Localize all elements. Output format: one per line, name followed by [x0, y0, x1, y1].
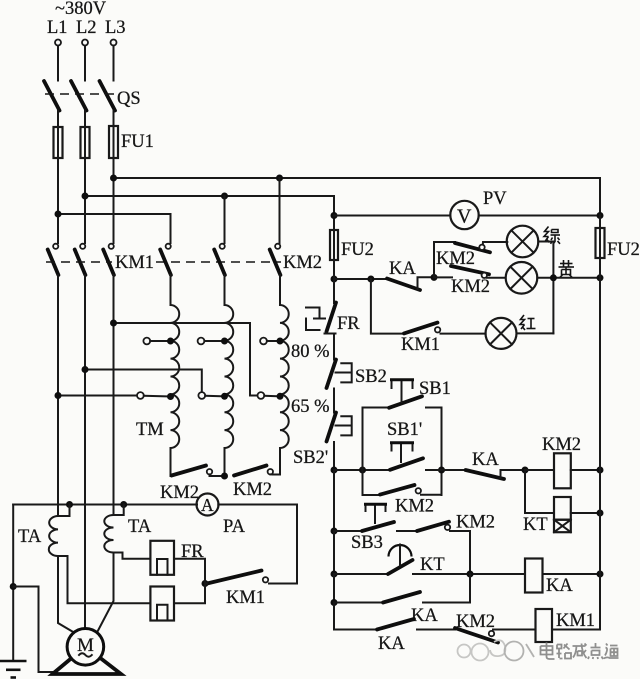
wire L2 drop: [84, 46, 86, 81]
left rail row2 to row3: [333, 531, 335, 574]
wire L3 drop: [113, 46, 115, 81]
voltmeter PV row wire: [334, 215, 450, 217]
thermal relay FR heater2: [150, 587, 174, 621]
svg-text:M: M: [77, 635, 94, 656]
relay KA contact row1: [442, 469, 466, 471]
left rail SB2 to SB2p: [333, 389, 335, 413]
svg-text:KM2: KM2: [283, 253, 322, 273]
node star junction: [221, 473, 228, 480]
wire KT branch: [525, 470, 554, 513]
svg-text:KT: KT: [523, 515, 548, 535]
svg-text:SB2: SB2: [355, 367, 387, 387]
node row3 mid: [467, 571, 474, 578]
wire green lamp to vertical: [538, 242, 553, 334]
ammeter PA: [197, 494, 219, 516]
contactor KM1 main pole2: [80, 244, 85, 249]
node left rail row3: [331, 571, 338, 578]
row2 wire: [334, 530, 362, 532]
wire QS to FU1 pole1: [57, 111, 59, 127]
wire bus2 L2 to left rail: [85, 196, 334, 216]
transformer TM winding1: [171, 305, 180, 448]
switch QS pole 2: [71, 81, 87, 111]
button SB3 start: [362, 522, 394, 531]
svg-text:TM: TM: [136, 420, 164, 440]
node right rail row3: [597, 571, 604, 578]
svg-text:SB1': SB1': [387, 420, 422, 440]
node red branch tap: [367, 276, 374, 283]
node FR junction: [202, 580, 209, 587]
contactor KM2 main pole1: [166, 244, 171, 249]
transformer TM winding3: [280, 305, 289, 448]
wire yellow lamp to rail: [537, 277, 600, 279]
contactor KM2 aux green: [455, 243, 490, 252]
node bus3-L1: [55, 211, 62, 218]
SB1 branch top edge: [363, 407, 390, 409]
contactor KM2 selfhold contact: [363, 494, 381, 496]
row1 main wire left: [334, 469, 390, 471]
SB1 box right vertical: [441, 408, 443, 496]
svg-text:~380V: ~380V: [55, 0, 107, 19]
wire L3 TA2 to motor: [97, 553, 114, 633]
node box left: [359, 467, 366, 474]
svg-text:65 %: 65 %: [291, 397, 330, 417]
node green yellow branch: [431, 274, 438, 281]
svg-text:KM2: KM2: [233, 480, 272, 500]
wire L1 KM1 down to motor branch: [57, 275, 59, 516]
svg-text:FU1: FU1: [121, 132, 154, 152]
node left rail row4: [331, 599, 338, 606]
node right rail PV row: [597, 212, 604, 219]
watermark text 电路成点通: [541, 643, 619, 660]
timer KT delayed contact: [388, 560, 413, 574]
contactor KM1 aux contact: [263, 577, 268, 582]
KM1 KM2 linkage dashed: [46, 261, 112, 263]
svg-text:KM1: KM1: [226, 588, 265, 608]
svg-text:A: A: [201, 495, 214, 515]
node TA2 secondary top: [120, 501, 127, 508]
ground: [0, 660, 27, 663]
left rail SB2p to row1: [333, 442, 335, 470]
terminal L3: [111, 40, 117, 46]
svg-text:KM2: KM2: [451, 277, 490, 297]
green label 绿: [544, 227, 560, 244]
node bus1 branch to KM2 pole3: [276, 175, 283, 182]
contactor KM1 coil: [536, 609, 553, 642]
node left rail row1: [331, 467, 338, 474]
fuse FU1 pole3: [109, 126, 118, 158]
wire L1 TA1 to motor: [58, 556, 74, 633]
tap 65% circle winding3: [258, 392, 265, 399]
fuse FU1 pole2: [81, 127, 90, 158]
wire L2 FU1 to KM1: [84, 158, 86, 243]
wire L1 FU1 to KM1: [57, 158, 59, 243]
node L3 tap: [110, 320, 117, 327]
button SB2 stop: [327, 360, 337, 389]
timer KT coil: [554, 497, 571, 520]
button SB2prime stop: [327, 413, 337, 442]
svg-text:KM2: KM2: [395, 497, 434, 517]
contactor KM2 star contact2: [234, 466, 267, 476]
wire ground to motor frame: [13, 587, 52, 673]
button SB1prime start: [390, 458, 423, 470]
ground wire left: [12, 505, 14, 662]
wire L2 tap to winding2 65%: [85, 370, 202, 393]
wire L3 KM1 down to TA2: [113, 275, 115, 515]
lamp red: [486, 318, 517, 349]
node left rail row2: [331, 528, 338, 535]
svg-text:KA: KA: [472, 450, 499, 470]
svg-text:FU2: FU2: [607, 240, 640, 260]
current transformer TA1: [58, 505, 70, 517]
svg-text:KA: KA: [378, 634, 405, 654]
tap 80% circle winding3: [260, 338, 267, 345]
wire L3 FU1 to KM1: [113, 158, 115, 243]
wire KM2 pole2 to TM winding2: [224, 275, 226, 305]
lamp row wire: [334, 278, 387, 280]
svg-text:L3: L3: [105, 18, 126, 38]
wire L1 drop: [57, 46, 59, 81]
wire FR1 to junction: [174, 559, 205, 584]
motor M: [67, 629, 104, 666]
terminal L1: [55, 40, 61, 46]
yellow label 黄: [559, 260, 575, 278]
wire ammeter to KM1 aux: [218, 505, 297, 584]
contactor KM2 main pole2: [220, 244, 225, 249]
svg-text:QS: QS: [117, 89, 141, 109]
svg-text:KA: KA: [411, 606, 438, 626]
lamp yellow: [506, 262, 538, 294]
svg-text:FU2: FU2: [341, 240, 374, 260]
wire FR2 to junction: [174, 584, 205, 604]
svg-text:SB2': SB2': [293, 448, 328, 468]
wire winding3 bottom: [273, 448, 280, 475]
wire green branch up: [434, 242, 455, 277]
node bus1-L3: [110, 175, 117, 182]
wire winding1 bottom: [170, 448, 172, 476]
svg-text:PV: PV: [483, 189, 507, 209]
node bus2 branch to KM2 pole2: [221, 193, 228, 200]
svg-text:80 %: 80 %: [291, 342, 330, 362]
wire QS to FU1 pole3: [113, 111, 115, 127]
wire QS to FU1 pole2: [84, 111, 86, 127]
svg-text:KA: KA: [389, 259, 416, 279]
terminal L2: [82, 40, 88, 46]
wire bus1 L3 to right rail: [114, 178, 601, 216]
right rail bottom segment: [599, 258, 601, 630]
left rail row4 to row5: [334, 603, 377, 630]
node left rail PV row: [331, 212, 338, 219]
lamp green: [507, 226, 539, 258]
ammeter loop wire left: [13, 504, 197, 506]
svg-text:PA: PA: [223, 517, 246, 537]
svg-text:FR: FR: [337, 314, 360, 334]
wire bus3 L1 to KM2 pole1: [58, 214, 171, 243]
node right rail lamp row: [597, 274, 604, 281]
node left rail lamp row: [331, 276, 338, 283]
left rail row3 to row4: [333, 574, 335, 603]
switch QS pole 3: [100, 81, 116, 111]
red label 红: [520, 315, 536, 330]
node L2 tap: [82, 366, 89, 373]
left rail FR to SB2: [333, 334, 335, 360]
contactor KM1 main pole1: [53, 244, 58, 249]
svg-text:SB1: SB1: [419, 379, 451, 399]
svg-text:L2: L2: [76, 18, 97, 38]
contactor KM2 aux row2: [417, 522, 449, 531]
tap 65% circle winding2: [198, 392, 205, 399]
wire KM2 pole3 to TM winding3: [279, 275, 281, 305]
node KT branch: [522, 467, 529, 474]
svg-text:KM2: KM2: [456, 513, 495, 533]
contactor KM2 aux row5: [455, 628, 498, 643]
wire bus2 drop to KM2 pole2: [224, 196, 226, 243]
fuse FU1 pole1: [54, 127, 63, 158]
svg-text:TA: TA: [18, 527, 42, 547]
tap 80% circle winding1: [143, 338, 150, 345]
thermal relay FR heater1: [150, 541, 174, 575]
contactor KM2 aux yellow: [434, 276, 452, 278]
svg-text:SB3: SB3: [351, 533, 383, 553]
svg-text:KA: KA: [546, 576, 573, 596]
node TA1 secondary top: [66, 501, 73, 508]
relay KA aux contact row5: [377, 619, 414, 630]
SB1 box left vertical: [362, 408, 364, 496]
relay KA contact lamp row: [387, 279, 420, 291]
wire red lamp to vertical: [517, 332, 554, 334]
tap 80% circle winding2: [198, 338, 205, 345]
left rail segment to lamp row: [333, 260, 335, 303]
node lamp vertical yellow: [550, 274, 557, 281]
current transformer TA2: [114, 505, 124, 516]
node bus2-L2: [82, 193, 89, 200]
switch QS pole 1: [44, 81, 60, 111]
node L1 tap: [55, 392, 62, 399]
relay KA aux contact row4: [383, 592, 420, 603]
node right rail row1: [597, 467, 604, 474]
svg-text:KM2: KM2: [542, 435, 581, 455]
svg-text:V: V: [457, 206, 472, 228]
wire KM2 pole1 to TM winding1: [170, 275, 172, 305]
svg-text:KM1: KM1: [115, 253, 154, 273]
contactor KM1 aux red: [404, 323, 438, 334]
transformer TM winding2: [225, 305, 234, 448]
contactor KM1 main pole3: [109, 244, 114, 249]
node box right: [438, 467, 445, 474]
contactor KM2 coil: [525, 469, 554, 471]
wire red branch: [371, 279, 404, 334]
contactor KM2 star contact1: [172, 466, 207, 476]
node ground branch: [10, 583, 17, 590]
svg-text:KT: KT: [420, 555, 445, 575]
relay KA coil: [525, 559, 543, 593]
svg-text:KM2: KM2: [456, 612, 495, 632]
tap 65% circle winding1: [137, 392, 144, 399]
row3 wire: [334, 573, 388, 575]
contactor KM2 main pole3: [275, 244, 280, 249]
svg-text:KM1: KM1: [401, 335, 440, 355]
voltmeter PV: [450, 201, 478, 229]
svg-text:KM1: KM1: [556, 611, 595, 631]
wire L3 tap to winding3 65%: [114, 323, 258, 396]
left rail FU2: [333, 216, 335, 231]
QS linkage dashed: [45, 93, 114, 95]
wire L1 tap to winding1 65%: [58, 395, 137, 397]
button SB1 start: [389, 396, 422, 408]
svg-text:TA: TA: [128, 517, 152, 537]
left rail row1 to row2: [333, 470, 335, 531]
node right rail KT row: [597, 510, 604, 517]
wire bus1 drop to KM2 pole3: [279, 178, 281, 243]
svg-text:KM2: KM2: [160, 483, 199, 503]
watermark logo: [458, 640, 535, 660]
svg-text:L1: L1: [47, 18, 68, 38]
wire winding2 bottom: [224, 448, 226, 476]
motor stand triangle: [53, 647, 122, 675]
row4 wire: [334, 602, 383, 604]
wire L2 KM1 down to motor: [84, 275, 86, 629]
thermal relay FR contact: [333, 260, 335, 303]
right rail FU2: [599, 216, 601, 229]
